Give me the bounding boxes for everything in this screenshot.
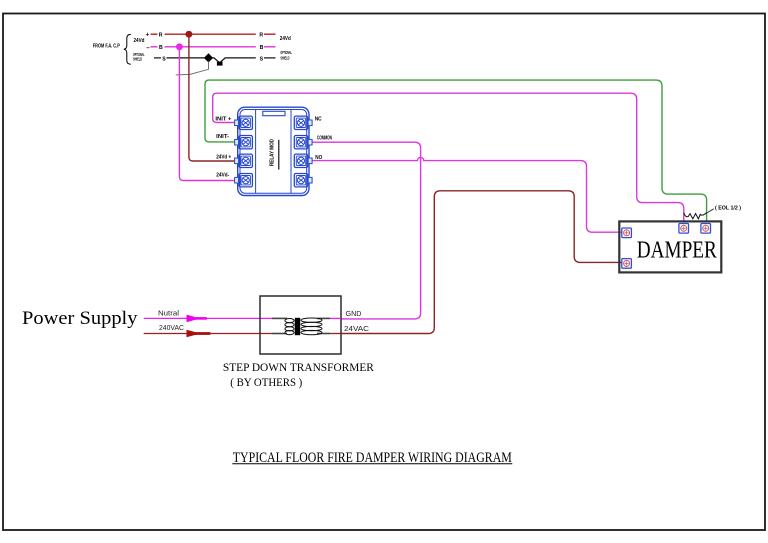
secondary coil — [301, 318, 322, 322]
relay terminal pin 6 right (COMMON) — [294, 136, 312, 149]
svg-text:24Vd +: 24Vd + — [216, 155, 231, 161]
junction dot magenta — [176, 43, 183, 50]
svg-text:–: – — [146, 44, 150, 51]
svg-text:( BY OTHERS ): ( BY OTHERS ) — [230, 375, 302, 389]
svg-text:240VAC: 240VAC — [159, 325, 184, 332]
svg-text:INIT-: INIT- — [216, 134, 229, 140]
wire 240VAC dark red into transformer — [144, 333, 272, 335]
svg-text:FROM F.A. C.P: FROM F.A. C.P — [93, 44, 121, 50]
svg-text:R: R — [159, 33, 163, 39]
relay module U1 — [238, 107, 309, 195]
brace for F.A. terminals — [124, 34, 131, 64]
damper terminal left-bottom (24VAC) — [622, 259, 632, 269]
svg-text:+: + — [146, 33, 150, 39]
relay terminal pin 7 right (NO) — [294, 154, 312, 167]
relay label underline — [278, 140, 280, 170]
relay terminal pin 5 right (NC) — [294, 116, 312, 129]
svg-text:SHIELD: SHIELD — [280, 55, 289, 60]
svg-text:Power Supply: Power Supply — [22, 308, 138, 329]
svg-text:( EOL 1/2 ): ( EOL 1/2 ) — [715, 206, 741, 212]
wire magenta INIT+ relay to damper top-left terminal — [213, 93, 684, 222]
svg-text:Nutral: Nutral — [158, 310, 179, 317]
transformer T1 (step down) — [260, 296, 341, 354]
wire magenta vertical to relay 24Vd- — [179, 47, 234, 181]
resistor EOL across damper motor terminals — [684, 213, 707, 219]
relay terminal pin 4 left (24Vd-) — [235, 174, 253, 187]
svg-text:B: B — [159, 45, 163, 51]
wire dark red 24VAC transformer to damper left-bottom terminal — [341, 191, 622, 334]
wire magenta GND short inside box — [330, 317, 341, 319]
wire 24Vd+ red stub dashes left — [151, 33, 158, 35]
svg-text:STEP DOWN TRANSFORMER: STEP DOWN TRANSFORMER — [223, 360, 374, 374]
svg-text:S: S — [162, 56, 166, 62]
wire shield dash right — [264, 57, 276, 59]
leader line EOL label — [702, 209, 714, 216]
relay terminal pin 8 right (spare) — [294, 174, 312, 187]
wire 24Vd- dash right — [264, 46, 276, 48]
svg-text:R: R — [259, 33, 263, 39]
svg-text:INIT +: INIT + — [215, 117, 231, 123]
svg-text:B: B — [260, 45, 264, 51]
svg-text:DAMPER: DAMPER — [637, 236, 718, 263]
svg-text:NC: NC — [315, 117, 322, 123]
wire shield black horizontal with V drop — [167, 58, 256, 63]
damper terminal top-left (INIT+) — [679, 224, 689, 234]
wire shield drain gray tail — [176, 62, 209, 75]
relay terminal pin 2 left (INIT-) — [235, 136, 253, 149]
wire red 24VAC short inside box — [330, 333, 341, 335]
svg-text:SHIELD: SHIELD — [133, 56, 142, 61]
wire 24Vd- magenta top horizontal — [165, 46, 256, 48]
svg-text:24Vd: 24Vd — [134, 38, 145, 44]
wire green INIT- relay to damper top-right terminal — [205, 80, 707, 222]
shield termination square — [217, 62, 223, 66]
title underline — [232, 463, 512, 465]
core — [295, 318, 300, 335]
wire 24Vd+ dash right — [264, 33, 276, 35]
svg-text:COMMON: COMMON — [317, 135, 332, 141]
wire shield dash left — [154, 57, 161, 59]
damper box — [619, 221, 721, 272]
junction diamond shield — [204, 53, 213, 62]
svg-text:S: S — [260, 56, 264, 62]
wire red vertical to relay 24Vd+ — [189, 34, 234, 161]
wire neutral magenta into transformer — [144, 317, 272, 319]
svg-text:RELAY MOD: RELAY MOD — [270, 139, 276, 166]
svg-text:24Vd-: 24Vd- — [216, 172, 229, 178]
primary coil — [285, 319, 294, 323]
damper terminal left-top (from relay NO) — [622, 228, 632, 238]
svg-text:24Vd: 24Vd — [280, 36, 291, 42]
arrow 240VAC dark red — [187, 330, 201, 338]
damper terminal top-right (INIT-) — [701, 224, 711, 234]
relay terminal pin 3 left (24Vd +) — [235, 154, 253, 167]
wire magenta NO to damper left-top terminal (hop over vertical) — [313, 157, 622, 232]
svg-text:GND: GND — [346, 311, 362, 318]
wire magenta COMMON to transformer GND — [313, 142, 421, 319]
svg-text:24VAC: 24VAC — [344, 326, 369, 333]
wire 24Vd- magenta dash left — [151, 46, 158, 48]
junction dot red — [186, 31, 193, 38]
arrow neutral magenta — [187, 315, 201, 323]
wire 24Vd+ red top horizontal — [165, 33, 256, 35]
relay terminal pin 1 left (INIT +) — [235, 116, 253, 129]
